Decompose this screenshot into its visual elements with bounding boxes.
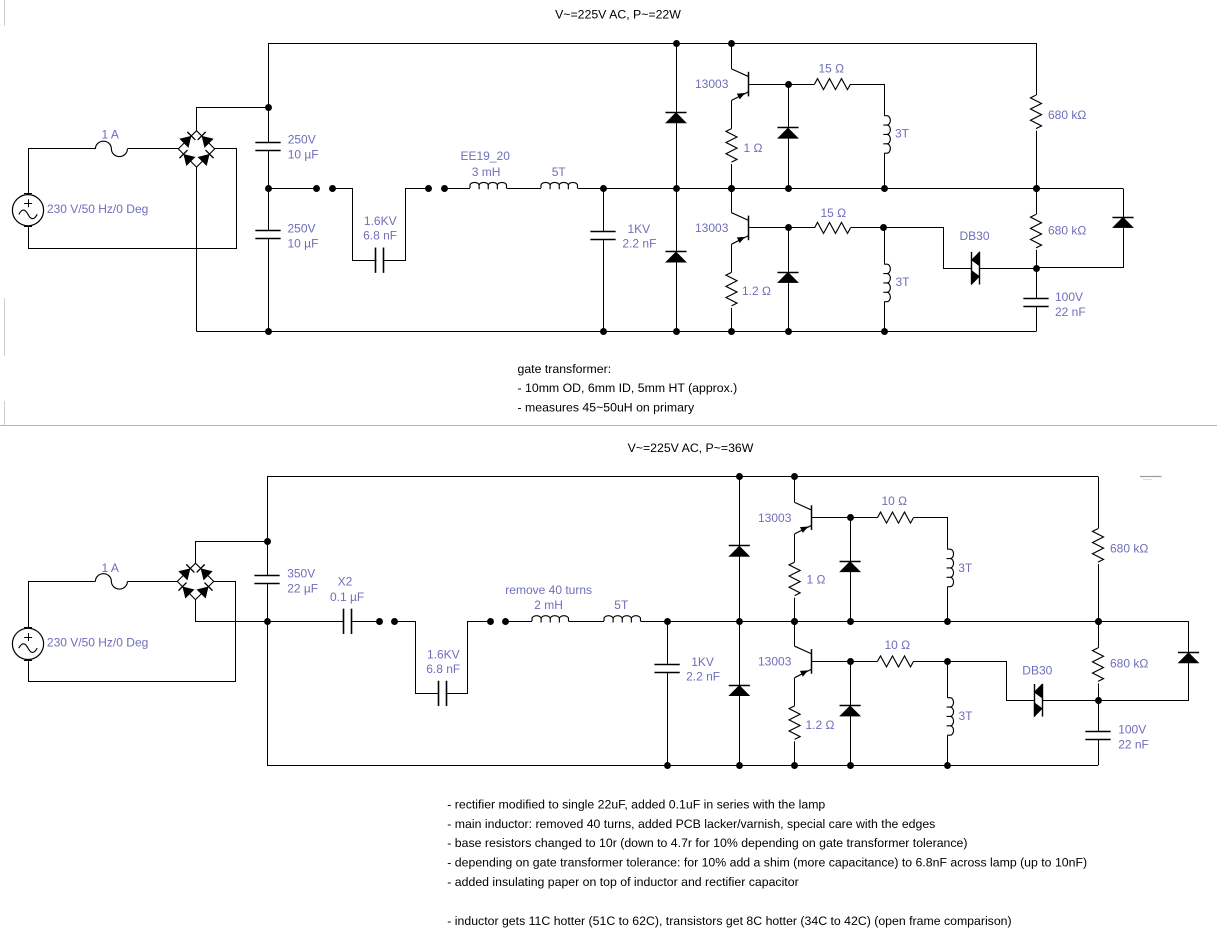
lamp connector pin 1	[313, 185, 320, 192]
svg-text:230 V/50 Hz/0 Deg: 230 V/50 Hz/0 Deg	[47, 202, 148, 216]
junction Q1 collector	[728, 40, 735, 47]
resistor R5 1.2 ohm	[726, 272, 737, 306]
separator line	[0, 425, 1217, 427]
wire T2b node to diac	[948, 662, 1035, 701]
wire T1a to mid rail	[884, 153, 886, 188]
svg-text:13003: 13003	[695, 221, 729, 235]
gate transformer winding T1a 3T	[883, 116, 890, 154]
wire to inductor L3	[505, 621, 532, 623]
resistor R1 15 ohm	[815, 79, 851, 90]
wire R9 to mid rail	[1098, 564, 1100, 621]
svg-text:X2: X2	[338, 575, 353, 589]
junction Q4 collector	[791, 618, 798, 625]
svg-text:5T: 5T	[614, 598, 629, 612]
wire to inductor L1	[444, 188, 470, 190]
junction T2a bottom	[944, 618, 951, 625]
lamp connector pin 3	[425, 185, 432, 192]
transistor Q3 13003	[795, 502, 812, 510]
wire V2 top to fuse	[29, 582, 96, 629]
svg-text:100V: 100V	[1055, 290, 1083, 304]
wire D10 to diac node 2	[1099, 663, 1189, 701]
wire base node to R10	[850, 661, 877, 663]
junction R6 top	[1033, 185, 1040, 192]
diode D5	[1112, 217, 1133, 219]
capacitor C3 1.6KV 6.8nF	[375, 248, 377, 273]
junction Q3 base node	[847, 514, 854, 521]
resistor R8 1 ohm	[789, 562, 800, 595]
wire bridge+ to cap column	[196, 542, 268, 564]
AC source V1 230V/50Hz	[12, 195, 43, 226]
junction D1 top	[673, 40, 680, 47]
junction C2 bottom	[265, 328, 272, 335]
top rail	[268, 43, 1036, 45]
wire base node to D4	[788, 228, 790, 272]
resistor R10 10 ohm	[878, 656, 914, 667]
wire R8 to mid rail	[794, 598, 796, 622]
svg-text:1 Ω: 1 Ω	[807, 573, 826, 587]
capacitor C1 250V 10uF	[255, 142, 280, 144]
svg-text:250V: 250V	[288, 222, 316, 236]
wire Q3 base	[812, 517, 850, 519]
junction caps mid	[265, 185, 272, 192]
junction Q4 base node	[847, 658, 854, 665]
diode D3	[777, 127, 798, 129]
wire collector Q3	[794, 477, 796, 503]
wire T1b down	[884, 228, 886, 264]
transistor Q2 13003	[732, 213, 749, 221]
resistor R3 680k	[1031, 95, 1042, 128]
svg-text:6.8 nF: 6.8 nF	[426, 662, 460, 676]
transistor Q1 13003	[732, 69, 749, 77]
diode D9	[840, 705, 861, 707]
diode D1	[665, 112, 686, 114]
capacitor C4 1KV 2.2nF	[590, 231, 615, 233]
diode D2	[665, 251, 686, 253]
window border artifact left low	[4, 401, 6, 425]
wire C2 to bottom rail	[268, 239, 270, 332]
wire top rail left end down	[267, 477, 269, 576]
svg-text:- rectifier modified to single: - rectifier modified to single 22uF, add…	[447, 797, 825, 811]
window border artifact left top	[4, 0, 6, 26]
wire collector Q1	[731, 43, 733, 69]
fuse F1 1A	[95, 141, 127, 156]
svg-text:15 Ω: 15 Ω	[819, 62, 845, 76]
junction D6 top	[736, 473, 743, 480]
diode D6	[729, 545, 750, 547]
wire R2 to mid rail	[731, 164, 733, 188]
junction D1 bottom	[673, 185, 680, 192]
svg-text:2.2 nF: 2.2 nF	[622, 237, 656, 251]
junction Q2 collector	[728, 185, 735, 192]
svg-text:3T: 3T	[895, 127, 910, 141]
wire notch up to mid rail	[384, 189, 429, 261]
svg-text:1.2 Ω: 1.2 Ω	[742, 284, 771, 298]
wire top rail to D6	[739, 477, 741, 546]
svg-text:1 A: 1 A	[102, 561, 119, 575]
wire L1 to L2	[507, 188, 542, 190]
wire L3 to L4	[569, 621, 605, 623]
wire collector Q2	[731, 188, 733, 213]
wire bridge+ to cap column	[197, 108, 269, 131]
svg-text:250V: 250V	[288, 133, 316, 147]
svg-text:V~=225V AC, P~=22W: V~=225V AC, P~=22W	[555, 7, 681, 21]
capacitor C6 350V 22uF	[254, 575, 279, 577]
capacitor C5 100V 22nF	[1023, 298, 1048, 300]
junction diac node	[1033, 265, 1040, 272]
bridge rectifier B2	[177, 563, 213, 599]
capacitor C2 250V 10uF	[255, 230, 280, 232]
svg-text:- added insulating paper on to: - added insulating paper on top of induc…	[447, 875, 798, 889]
transistor Q4 13003	[795, 646, 812, 654]
wire Q3 emitter	[794, 534, 796, 562]
junction bridge+/caps	[265, 104, 272, 111]
wire mid rail to R12	[1098, 621, 1100, 648]
wire R10 to T2b	[914, 661, 948, 663]
junction D6 bottom	[736, 618, 743, 625]
wire R11 to bottom rail	[794, 741, 796, 765]
bottom rail 2	[267, 765, 1098, 767]
resistor R4 15 ohm	[815, 222, 851, 233]
wire R7 to corner T2	[914, 518, 948, 550]
junction T2b top	[944, 658, 951, 665]
junction R2 bottom	[728, 185, 735, 192]
svg-text:680 kΩ: 680 kΩ	[1110, 541, 1148, 555]
wire to 6.8nF notch	[333, 189, 377, 261]
wire D8 to mid rail	[850, 572, 852, 622]
junction Q3 collector	[791, 473, 798, 480]
lamp connector pin 8	[502, 618, 509, 625]
wire R6 to diac node	[1036, 250, 1038, 268]
wire D7 to bottom rail	[739, 696, 741, 766]
window border artifact left mid	[4, 298, 6, 356]
junction Q1 base node	[785, 81, 792, 88]
wire fuse to bridge B2	[127, 581, 177, 583]
svg-text:- measures 45~50uH on primary: - measures 45~50uH on primary	[518, 401, 696, 415]
wire mid node down to bottom rail	[267, 621, 269, 765]
wire mid rail to D7	[739, 621, 741, 685]
wire mid to C2	[268, 188, 270, 231]
wire D6 to mid rail	[739, 556, 741, 621]
gate transformer winding T2b 3T	[947, 698, 954, 736]
wire top rail 2 right end down	[1098, 477, 1100, 529]
resistor R11 1.2 ohm	[789, 706, 800, 739]
inductor L3 2mH	[532, 616, 568, 623]
wire C6 to mid node	[267, 584, 269, 622]
svg-text:3T: 3T	[958, 561, 973, 575]
wire diac to node	[980, 268, 1037, 270]
wire top rail to D1	[676, 43, 678, 112]
svg-text:6.8 nF: 6.8 nF	[363, 228, 397, 242]
svg-text:remove 40 turns: remove 40 turns	[505, 583, 592, 597]
junction T1a bottom	[881, 185, 888, 192]
svg-text:13003: 13003	[695, 77, 729, 91]
junction R11 bottom	[791, 762, 798, 769]
lamp connector pin 5	[376, 618, 383, 625]
wire T2b down	[947, 661, 949, 697]
wire D1 to mid rail	[676, 123, 678, 188]
wire C4 to bottom rail	[603, 239, 605, 331]
diac U1 DB30	[971, 252, 973, 285]
svg-text:1.6KV: 1.6KV	[427, 648, 460, 662]
wire mid rail to R6	[1036, 188, 1038, 214]
svg-text:10 Ω: 10 Ω	[885, 638, 911, 652]
inductor L1 EE19_20 3mH	[470, 182, 506, 189]
wire Q4 base	[812, 661, 850, 663]
wire Q4 emitter	[794, 678, 796, 706]
svg-text:0.1 µF: 0.1 µF	[330, 590, 364, 604]
svg-text:22 nF: 22 nF	[1055, 305, 1086, 319]
junction D4 bottom	[785, 328, 792, 335]
svg-text:DB30: DB30	[960, 229, 990, 243]
bottom rail	[197, 331, 1037, 333]
svg-text:680 kΩ: 680 kΩ	[1048, 224, 1086, 238]
fuse F2 1A	[95, 574, 127, 589]
svg-text:1.6KV: 1.6KV	[364, 214, 397, 228]
wire Q2 emitter	[731, 244, 733, 272]
gray artifact dash	[1140, 476, 1162, 478]
capacitor C9 1KV 2.2nF	[654, 664, 679, 666]
gate transformer winding T1b 3T	[883, 264, 890, 302]
wire T1b to bottom rail	[884, 302, 886, 332]
junction R5 bottom	[728, 328, 735, 335]
svg-text:- 10mm OD, 6mm ID, 5mm HT (app: - 10mm OD, 6mm ID, 5mm HT (approx.)	[518, 381, 738, 395]
wire base node to D3	[788, 84, 790, 128]
junction C9 bottom	[664, 762, 671, 769]
wire D3 to mid rail	[788, 138, 790, 188]
capacitor C7 X2 0.1uF	[343, 609, 345, 634]
svg-text:680 kΩ: 680 kΩ	[1110, 657, 1148, 671]
wire V1 top to fuse	[29, 149, 96, 195]
junction T1b top	[880, 224, 887, 231]
wire Q1 emitter	[731, 100, 733, 128]
wire mid node to C7	[267, 621, 343, 623]
junction bridge+/C6	[264, 538, 271, 545]
svg-text:22 µF: 22 µF	[287, 582, 318, 596]
wire T1b node to diac	[884, 228, 972, 269]
wire mid rail 2 to D10	[1188, 621, 1190, 652]
wire L4 to mid rail right	[641, 621, 1189, 623]
junction diac node 2	[1095, 697, 1102, 704]
lamp connector pin 4	[441, 185, 448, 192]
lamp connector pin 6	[391, 618, 398, 625]
wire top rail left end down	[268, 43, 270, 142]
svg-text:- main inductor: removed 40 tu: - main inductor: removed 40 turns, added…	[447, 817, 935, 831]
junction R8 bottom	[791, 618, 798, 625]
svg-text:2 mH: 2 mH	[534, 598, 563, 612]
diode D10	[1178, 652, 1199, 654]
capacitor C10 100V 22nF	[1085, 731, 1110, 733]
junction D8 bottom	[847, 618, 854, 625]
wire collector Q4	[794, 621, 796, 646]
svg-text:13003: 13003	[758, 511, 792, 525]
wire bridge- down to bottom rail	[196, 167, 198, 331]
junction C9 top	[664, 618, 671, 625]
AC source V2 230V/50Hz	[12, 628, 43, 659]
resistor R6 680k	[1031, 214, 1042, 248]
svg-text:5T: 5T	[552, 165, 567, 179]
junction R3 bottom	[1033, 185, 1040, 192]
svg-text:- inductor gets 11C hotter (51: - inductor gets 11C hotter (51C to 62C),…	[447, 914, 1011, 928]
wire node to C5	[1036, 268, 1038, 298]
wire base node to D8	[850, 518, 852, 562]
svg-text:1KV: 1KV	[691, 655, 714, 669]
wire fuse to bridge	[127, 148, 178, 150]
svg-text:680 kΩ: 680 kΩ	[1048, 108, 1086, 122]
junction D3 bottom	[785, 185, 792, 192]
wire C7 to connector	[351, 621, 379, 623]
svg-text:1KV: 1KV	[628, 222, 651, 236]
diode D8	[840, 561, 861, 563]
wire notch 2 up to mid	[446, 622, 491, 694]
resistor R7 10 ohm	[878, 512, 914, 523]
wire R5 to bottom rail	[731, 308, 733, 332]
junction R9 bottom	[1095, 618, 1102, 625]
wire base node to D9	[850, 661, 852, 705]
resistor R12 680k	[1093, 648, 1104, 681]
junction T2b bottom	[944, 762, 951, 769]
inductor L4 5T	[604, 616, 640, 623]
junction mid node	[264, 618, 271, 625]
svg-text:gate transformer:: gate transformer:	[518, 362, 612, 376]
wire T2a to mid rail	[947, 587, 949, 622]
junction D7 bottom	[736, 762, 743, 769]
svg-text:1 A: 1 A	[102, 127, 119, 141]
wire D5 to diac node	[1037, 228, 1124, 268]
resistor R9 680k	[1093, 529, 1104, 562]
wire bridge- to mid node	[196, 600, 268, 622]
wire Q2 base	[749, 227, 788, 229]
wire base node to R1	[788, 84, 815, 86]
wire node to C10	[1098, 700, 1100, 731]
svg-text:2.2 nF: 2.2 nF	[686, 670, 720, 684]
wire D9 to bottom rail	[850, 716, 852, 765]
junction R12 top	[1095, 618, 1102, 625]
svg-text:10 Ω: 10 Ω	[882, 494, 908, 508]
svg-text:10 µF: 10 µF	[288, 148, 319, 162]
diode D4	[777, 272, 798, 274]
wire mid rail to D5	[1123, 189, 1125, 218]
inductor L2 5T	[541, 182, 577, 189]
svg-text:230 V/50 Hz/0 Deg: 230 V/50 Hz/0 Deg	[47, 635, 148, 649]
capacitor C8 1.6KV 6.8nF	[438, 681, 440, 706]
wire R12 to diac node	[1098, 683, 1100, 700]
junction 2.2nF top	[600, 185, 607, 192]
wire to 6.8nF notch 2	[395, 622, 439, 694]
wire L2 to mid rail right	[578, 188, 1124, 190]
wire top rail right end down	[1036, 43, 1038, 95]
gate transformer winding T2a 3T	[947, 549, 954, 587]
svg-text:EE19_20: EE19_20	[461, 149, 511, 163]
gray artifact dash 2	[1143, 479, 1153, 481]
svg-text:1 Ω: 1 Ω	[744, 141, 763, 155]
svg-text:3T: 3T	[896, 275, 911, 289]
svg-text:V~=225V AC, P~=36W: V~=225V AC, P~=36W	[628, 441, 754, 455]
wire to C9	[667, 621, 669, 663]
svg-text:100V: 100V	[1118, 723, 1146, 737]
lamp connector pin 2	[329, 185, 336, 192]
svg-text:- base resistors changed to 10: - base resistors changed to 10r (down to…	[447, 836, 967, 850]
wire base node to R7	[850, 517, 877, 519]
junction D9 bottom	[847, 762, 854, 769]
wire base node to R4	[788, 227, 815, 229]
wire C9 to bottom rail	[667, 672, 669, 765]
junction 2.2nF bottom	[600, 328, 607, 335]
wire diac 2 to node	[1042, 700, 1098, 702]
wire bridge AC return to V2	[29, 582, 236, 682]
svg-text:10 µF: 10 µF	[288, 237, 319, 251]
diac U2 DB30	[1034, 684, 1036, 717]
wire C1 to mid	[268, 150, 270, 188]
wire C10 to bottom rail	[1098, 740, 1100, 766]
junction T1b bottom	[881, 328, 888, 335]
resistor R2 1 ohm	[726, 129, 737, 163]
svg-text:13003: 13003	[758, 655, 792, 669]
svg-text:3 mH: 3 mH	[472, 165, 501, 179]
svg-text:1.2 Ω: 1.2 Ω	[806, 718, 835, 732]
junction Q2 base node	[785, 224, 792, 231]
lamp connector pin 7	[487, 618, 494, 625]
top rail 2	[267, 476, 1098, 478]
wire mid rail segment A	[268, 188, 316, 190]
wire bridge AC return to V1	[29, 149, 237, 249]
wire Q1 base	[749, 84, 788, 86]
junction D2 bottom	[673, 328, 680, 335]
wire to C4	[603, 188, 605, 232]
bridge rectifier B1	[178, 131, 214, 167]
wire T2b to bottom rail	[947, 735, 949, 765]
wire D2 to bottom rail	[676, 262, 678, 332]
wire R1 to corner T1	[851, 85, 885, 116]
wire mid rail to D2	[676, 188, 678, 252]
wire R3 to mid rail	[1036, 131, 1038, 188]
wire C5 to bottom rail	[1036, 307, 1038, 332]
wire D4 to bottom rail	[788, 283, 790, 332]
svg-text:DB30: DB30	[1022, 664, 1052, 678]
diode D7	[729, 685, 750, 687]
svg-text:3T: 3T	[959, 709, 974, 723]
svg-text:- depending on gate transforme: - depending on gate transformer toleranc…	[447, 856, 1087, 870]
svg-text:350V: 350V	[287, 567, 315, 581]
svg-text:15 Ω: 15 Ω	[821, 206, 847, 220]
svg-text:22 nF: 22 nF	[1118, 738, 1149, 752]
wire R4 to T1b	[851, 227, 884, 229]
